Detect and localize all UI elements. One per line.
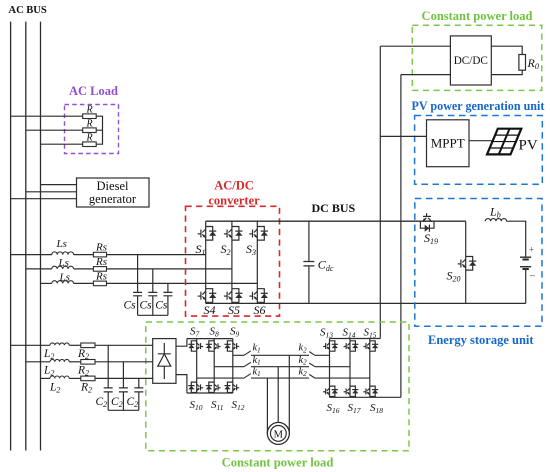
rectifier box xyxy=(153,339,176,384)
box energy storage dashed xyxy=(415,199,542,327)
svg-text:Cs: Cs xyxy=(155,300,168,312)
transistor S2 xyxy=(224,227,243,241)
box constant power load bottom dashed xyxy=(146,322,409,451)
svg-text:AC/DC: AC/DC xyxy=(214,178,254,192)
resistor Rs 2 xyxy=(93,267,106,272)
wire inverter2 leg 1 xyxy=(329,339,331,398)
transistor S10 xyxy=(188,382,203,392)
svg-text:S4: S4 xyxy=(204,303,216,317)
svg-text:Ls: Ls xyxy=(59,271,70,283)
capacitor Cdc xyxy=(303,221,314,303)
svg-text:converter: converter xyxy=(208,193,260,207)
svg-text:PV: PV xyxy=(519,137,538,153)
contact k2 b xyxy=(309,363,350,367)
wire tap leg1 through k1 (phase c) xyxy=(197,377,309,379)
box MPPT xyxy=(427,120,470,167)
PV panel xyxy=(487,129,521,155)
svg-text:−: − xyxy=(529,271,535,283)
transistor S12 xyxy=(224,382,239,392)
svg-text:R: R xyxy=(86,105,93,116)
wire tap leg3 through k1 (phase a) xyxy=(233,354,309,356)
contact k1 c blade xyxy=(244,374,251,378)
svg-text:DC BUS: DC BUS xyxy=(312,201,356,215)
resistor Rs 1 xyxy=(93,252,106,257)
wire phase m3 with L2 R2 xyxy=(41,377,51,379)
wire inverter2 leg 2 xyxy=(349,339,351,398)
wire MPPT to PV xyxy=(469,140,492,142)
wire inverter2 top bus xyxy=(330,338,381,340)
diode (rectifier) xyxy=(158,343,171,379)
resistor Rs 3 xyxy=(93,281,106,286)
transistor S17 xyxy=(344,386,359,396)
wire S20 branch xyxy=(465,221,467,303)
transistor S9 xyxy=(224,341,239,351)
svg-text:AC Load: AC Load xyxy=(69,84,118,98)
capacitor Cs 1 xyxy=(133,255,142,316)
svg-text:Ls: Ls xyxy=(56,238,67,250)
svg-text:Constant power load: Constant power load xyxy=(422,9,533,23)
wire phase2 to leg2 xyxy=(107,268,232,270)
battery xyxy=(520,257,531,269)
svg-text:generator: generator xyxy=(89,192,137,206)
wire phase 2 with Ls Rs xyxy=(26,268,52,270)
wire motor feed 1 xyxy=(288,355,290,433)
svg-text:MPPT: MPPT xyxy=(431,136,465,151)
inductor Ls 1 xyxy=(52,252,74,255)
wire motor feed 2 xyxy=(277,367,279,423)
wire tap leg2 through k1 (phase b) xyxy=(214,366,309,368)
capacitor C2 3 xyxy=(134,378,143,410)
wire bus3 to R load 3 xyxy=(41,143,83,145)
inductor L2 3 xyxy=(50,376,69,378)
wire C2 bottom rail xyxy=(108,409,139,411)
capacitor Cs 3 xyxy=(163,283,172,315)
resistor R (load 3) xyxy=(83,142,97,147)
wire xyxy=(74,254,94,256)
transistor S1 xyxy=(198,227,217,241)
resistor R (load 1) xyxy=(83,114,97,119)
wire bus2 to diesel xyxy=(26,191,77,193)
wire converter leg 3 xyxy=(256,221,258,303)
transistor S6 xyxy=(249,289,268,303)
wire AC bus phase line 3 xyxy=(40,22,42,451)
wire phase3 to leg3 xyxy=(107,282,258,284)
wire DC bottom rail xyxy=(206,302,526,304)
resistor R2 1 xyxy=(81,343,95,348)
wire xyxy=(74,268,94,270)
wire Lb to battery xyxy=(507,221,526,257)
svg-text:Energy storage unit: Energy storage unit xyxy=(428,333,534,347)
wire vertical line B (DC- to loads) xyxy=(400,75,402,398)
svg-text:R: R xyxy=(86,119,93,130)
wire DC/DC to R0 top xyxy=(491,46,522,54)
wire inverter1 leg 1 xyxy=(196,339,198,393)
wire rectifier out top xyxy=(176,339,187,347)
transistor S8 xyxy=(206,341,221,351)
svg-text:Cs: Cs xyxy=(140,300,153,312)
wire motor feed 3 xyxy=(266,378,268,433)
svg-text:S6: S6 xyxy=(254,303,266,317)
svg-text:PV power generation unit: PV power generation unit xyxy=(412,99,545,113)
wire phase 3 with Ls Rs xyxy=(41,282,52,284)
transistor S3 xyxy=(249,227,268,241)
box PV unit dashed xyxy=(415,116,543,185)
svg-text:Ls: Ls xyxy=(58,257,69,269)
wire bus1 to R load 1 xyxy=(11,115,83,117)
transistor S11 xyxy=(206,382,221,392)
svg-text:+: + xyxy=(529,246,534,256)
box AC/DC converter dashed xyxy=(186,206,280,316)
svg-text:Rs: Rs xyxy=(95,256,107,268)
wire Cs bottom rail xyxy=(138,314,168,316)
inductor L2 1 xyxy=(50,343,69,345)
wire vertical line A (DC+ to loads) xyxy=(379,46,381,338)
transistor S5 xyxy=(224,289,243,303)
resistor R0 xyxy=(519,55,526,71)
transistor S13 xyxy=(323,341,338,351)
contact k1 a blade xyxy=(244,351,251,355)
transistor S7 xyxy=(188,341,203,351)
transistor S14 xyxy=(344,341,359,351)
capacitor C2 2 xyxy=(119,362,128,411)
svg-text:R: R xyxy=(86,133,93,144)
wire converter leg 2 xyxy=(231,221,233,303)
svg-text:M: M xyxy=(274,429,284,440)
wire inverter2 bottom bus xyxy=(330,396,401,398)
wire xyxy=(74,282,94,284)
wire A to DC/DC top xyxy=(380,45,450,47)
capacitor C2 1 xyxy=(104,345,113,410)
wire bus2 to R load 2 xyxy=(26,129,83,131)
wire AC bus phase line 2 xyxy=(25,22,27,451)
wire phase m1 with L2 R2 xyxy=(11,344,50,346)
motor M xyxy=(267,422,289,444)
svg-text:Rs: Rs xyxy=(95,270,107,282)
svg-text:Rs: Rs xyxy=(95,241,107,253)
wire phase m2 with L2 R2 xyxy=(26,361,50,363)
wire A to MPPT xyxy=(380,135,426,137)
svg-text:Constant power load: Constant power load xyxy=(222,455,334,469)
transistor S15 xyxy=(363,341,378,351)
wire inverter1 top bus xyxy=(187,338,233,340)
wire bus1 to diesel xyxy=(11,198,77,200)
box diesel generator xyxy=(77,178,150,207)
inductor L2 2 xyxy=(50,359,69,361)
capacitor Cs 2 xyxy=(148,269,157,315)
contact k2 c xyxy=(309,374,370,378)
box constant power load top dashed xyxy=(412,25,542,90)
inductor Ls 3 xyxy=(52,281,74,284)
wire DC/DC to R0 bottom xyxy=(491,70,522,74)
inductor Ls 2 xyxy=(52,266,74,269)
transistor S16 xyxy=(323,386,338,396)
box AC Load dashed xyxy=(65,105,119,154)
resistor R2 3 xyxy=(81,376,95,381)
transistor S18 xyxy=(363,386,378,396)
wire phase 1 with Ls Rs xyxy=(11,254,52,256)
wire bus3 to diesel xyxy=(41,184,77,186)
wire DC bus top xyxy=(206,220,466,222)
svg-text:Diesel: Diesel xyxy=(97,179,129,193)
wire B to DC/DC bottom xyxy=(401,74,451,76)
resistor R2 2 xyxy=(81,360,95,365)
wire inverter2 leg 3 xyxy=(369,339,371,398)
svg-text:S5: S5 xyxy=(228,303,240,317)
wire AC load right tie xyxy=(96,116,102,144)
wire inverter1 bottom bus xyxy=(187,392,233,394)
contact k1 b blade xyxy=(244,362,251,366)
wire phase1 to leg1 xyxy=(107,254,206,256)
svg-text:Cs: Cs xyxy=(124,300,137,312)
converter DC/DC box xyxy=(450,36,491,85)
inductor Lb xyxy=(485,219,506,222)
contact k2 a xyxy=(309,352,329,356)
wire inverter1 leg 2 xyxy=(213,339,215,393)
transistor S4 xyxy=(198,289,217,303)
wire inverter1 leg 3 xyxy=(232,339,234,393)
svg-text:AC BUS: AC BUS xyxy=(9,5,47,16)
resistor R (load 2) xyxy=(83,128,97,133)
transistor S20 xyxy=(458,257,477,271)
wire converter leg 1 xyxy=(205,221,207,303)
transistor S19 xyxy=(420,213,434,232)
wire rectifier out bottom xyxy=(176,375,187,393)
wire AC bus phase line 1 xyxy=(10,22,12,451)
svg-text:DC/DC: DC/DC xyxy=(454,55,488,67)
